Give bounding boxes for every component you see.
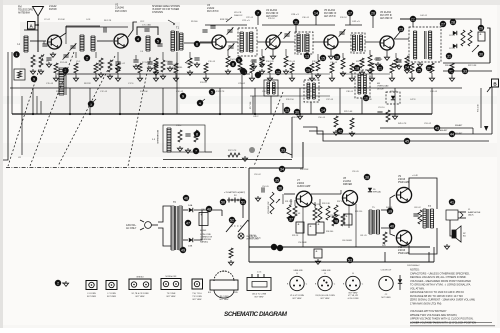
junction dot 15 <box>320 55 326 61</box>
conn T10 <box>192 279 203 301</box>
svg-text:NOTES:: NOTES: <box>410 268 420 272</box>
svg-text:FM CONV: FM CONV <box>115 9 127 13</box>
svg-text:D4A: D4A <box>188 204 193 207</box>
label V8 <box>343 177 352 186</box>
svg-text:R29 5.6K: R29 5.6K <box>344 111 353 113</box>
wire V2 collector up <box>128 22 133 37</box>
audio left vertical <box>248 168 250 262</box>
top wire seg D <box>205 24 247 26</box>
svg-text:52: 52 <box>230 218 234 222</box>
svg-text:50: 50 <box>221 200 225 204</box>
label V7 <box>297 179 311 188</box>
svg-text:CASE GND: CASE GND <box>293 269 303 272</box>
FM telescope antenna label <box>18 6 33 15</box>
volume control <box>268 192 280 214</box>
junction dot 61 <box>389 223 395 229</box>
svg-text:T10, T11 &: T10, T11 & <box>192 293 202 295</box>
AC plug <box>140 220 158 230</box>
svg-text:V7, V8, VR: V7, V8, VR <box>348 295 358 297</box>
electrolytic C62 <box>314 249 322 265</box>
junction dot 26 <box>426 65 432 71</box>
cap C47 <box>377 110 390 122</box>
svg-text:1: 1 <box>16 53 18 57</box>
junction dot 7 <box>255 10 261 16</box>
overload parts <box>386 92 400 104</box>
junction dot 25 <box>416 67 422 73</box>
svg-text:SCHEMATIC DIAGRAM: SCHEMATIC DIAGRAM <box>224 311 288 318</box>
svg-text:BOT VIEW: BOT VIEW <box>136 296 145 298</box>
svg-text:R6 2.2K: R6 2.2K <box>104 20 112 22</box>
junction dot 47 <box>183 195 189 201</box>
V4 emitter ground <box>270 49 275 59</box>
junction dot 59 <box>364 174 370 180</box>
junction dot 49 <box>180 247 186 253</box>
svg-text:R22 3.3K: R22 3.3K <box>468 65 477 67</box>
junction dot 6 <box>194 41 200 47</box>
svg-text:R19 1K: R19 1K <box>340 17 347 19</box>
svg-text:R36 560: R36 560 <box>326 231 333 233</box>
junction dot 64 <box>449 199 455 205</box>
svg-text:SPECIAL: SPECIAL <box>373 191 381 194</box>
junction dot 30 <box>478 51 484 57</box>
capacitor C1 <box>42 44 51 46</box>
svg-text:C49 2: C49 2 <box>253 116 259 118</box>
svg-text:2: 2 <box>57 281 59 285</box>
junction dot 56 <box>274 177 280 183</box>
svg-text:C53 .02: C53 .02 <box>424 123 432 125</box>
scan streak 1 <box>3 96 497 104</box>
svg-text:38: 38 <box>365 175 369 179</box>
junction dot 48 <box>185 220 191 226</box>
transistor V7 <box>296 191 312 207</box>
audio top wire <box>252 167 303 169</box>
det right wire <box>487 28 490 63</box>
ground V1 emitter <box>50 52 55 57</box>
shaded tuner area <box>20 22 180 114</box>
svg-text:27: 27 <box>441 22 445 26</box>
audio mid wires <box>311 194 341 206</box>
svg-text:L7 CONN: L7 CONN <box>107 293 116 295</box>
svg-text:11: 11 <box>294 20 298 24</box>
transistor V3 <box>212 35 226 49</box>
filler trim l <box>284 31 291 38</box>
resistor R8 <box>187 58 192 75</box>
C28 label <box>291 14 299 16</box>
svg-text:20: 20 <box>371 11 375 15</box>
junction dot 18 <box>354 65 360 71</box>
feed arrow right <box>484 126 488 131</box>
audio lower bus <box>249 247 434 262</box>
svg-text:400MF: 400MF <box>200 230 207 232</box>
transistor V10 <box>396 230 411 245</box>
gang dashed diagonal 3 <box>58 56 115 166</box>
svg-text:5: 5 <box>157 39 159 43</box>
AM IFT1 box <box>264 80 278 96</box>
resistor R25 <box>394 58 398 68</box>
junction dot 34 <box>88 101 94 107</box>
svg-text:WHERE TWO VOLTAGES ARE SHOWN,: WHERE TWO VOLTAGES ARE SHOWN, <box>410 313 457 317</box>
svg-text:8: 8 <box>232 62 234 66</box>
svg-text:DRIVER: DRIVER <box>343 183 352 186</box>
svg-text:49: 49 <box>181 248 185 252</box>
electrolytic C57 <box>308 224 316 235</box>
resistor R16 <box>259 56 264 74</box>
top wire seg A <box>24 29 38 31</box>
bus tick dots <box>32 113 301 115</box>
svg-text:C12 .05: C12 .05 <box>100 91 108 93</box>
svg-text:R9 560: R9 560 <box>191 21 198 23</box>
wire V3 base <box>200 41 212 43</box>
label V6 <box>380 11 393 20</box>
svg-text:BROADBAND: BROADBAND <box>156 130 159 144</box>
broadband coil <box>167 128 171 152</box>
junction dot 35 <box>180 93 186 99</box>
label V3 <box>207 4 219 13</box>
top wire seg E <box>262 24 335 26</box>
junction dot A1 <box>13 51 19 57</box>
rail mid <box>10 87 462 89</box>
svg-text:30: 30 <box>295 110 299 114</box>
svg-text:R18 470: R18 470 <box>312 61 320 63</box>
svg-text:C17 6: C17 6 <box>128 83 134 85</box>
bus verticals <box>33 88 432 114</box>
svg-text:L3 CONN: L3 CONN <box>87 293 96 295</box>
svg-text:4: 4 <box>199 101 201 105</box>
more labels low band <box>46 82 416 101</box>
feed vertical right <box>491 87 493 134</box>
title SCHEMATIC DIAGRAM <box>224 311 288 318</box>
det vertical right <box>489 28 491 63</box>
conn L7 <box>106 281 117 299</box>
junction dot 43 <box>337 128 343 134</box>
part number label <box>407 264 420 267</box>
svg-text:17MA MAX (NON LTD) FM): 17MA MAX (NON LTD) FM) <box>410 302 442 306</box>
junction dot 24 <box>404 64 410 70</box>
audio vertical wires <box>283 190 356 247</box>
diode D4B <box>188 238 193 248</box>
feed line top <box>380 128 473 134</box>
jack label <box>468 209 481 217</box>
battery label <box>224 191 245 194</box>
svg-text:BOT VIEW: BOT VIEW <box>321 298 330 300</box>
wire V2 base <box>97 40 113 42</box>
junction dot 52 <box>240 199 246 205</box>
label V4 <box>266 9 279 18</box>
svg-text:C51 10: C51 10 <box>378 107 385 109</box>
feed staircase A <box>303 127 492 134</box>
transistor V5 <box>324 35 338 49</box>
notes underline 2 <box>410 325 495 327</box>
filler trim k <box>227 27 234 34</box>
svg-text:≈ 0.4V: ≈ 0.4V <box>412 175 418 177</box>
svg-text:BOT VIEW: BOT VIEW <box>193 299 202 301</box>
C52 trim arrow <box>472 45 479 52</box>
svg-text:C2 .02: C2 .02 <box>44 19 51 21</box>
signal seg 7 <box>394 38 409 40</box>
R37 mid label <box>228 150 248 161</box>
transistor V6 <box>380 36 394 50</box>
svg-text:AM 1ST IF: AM 1ST IF <box>324 15 336 18</box>
junction dot 63 <box>277 245 283 251</box>
svg-text:6: 6 <box>196 42 198 46</box>
capacitor C2 <box>46 58 51 67</box>
trimmer C1B <box>63 52 70 59</box>
svg-text:5: 5 <box>211 90 213 94</box>
broadband parts <box>177 130 198 153</box>
bus verticals extra <box>37 96 41 114</box>
battery B1 <box>227 195 243 203</box>
transformer T1 <box>171 26 183 52</box>
svg-text:R23 10K: R23 10K <box>364 99 372 101</box>
svg-text:VOLUME 10K: VOLUME 10K <box>268 201 270 214</box>
svg-text:C53 .02: C53 .02 <box>254 174 261 176</box>
svg-text:48: 48 <box>207 207 211 211</box>
feed labels <box>455 124 463 135</box>
T2 winding 1 <box>414 31 417 59</box>
svg-text:BOT VIEW: BOT VIEW <box>87 296 96 298</box>
svg-text:C36 .05: C36 .05 <box>330 62 338 64</box>
plug wires <box>158 206 171 246</box>
svg-text:44: 44 <box>450 132 454 136</box>
scan streak 2 <box>3 143 497 157</box>
svg-text:BOT VIEW: BOT VIEW <box>349 293 358 295</box>
svg-text:9: 9 <box>33 77 35 81</box>
svg-text:C48 .05: C48 .05 <box>430 91 438 93</box>
electrolytic C60 <box>344 214 352 225</box>
svg-text:28: 28 <box>451 20 455 24</box>
junction dot 4 <box>135 36 141 42</box>
svg-text:C19 .05: C19 .05 <box>208 61 216 63</box>
filler res c <box>153 58 158 75</box>
pinout C2 <box>379 270 393 300</box>
ground det <box>417 62 422 67</box>
T1 drop wire <box>176 52 178 114</box>
svg-text:C54 .05: C54 .05 <box>262 186 269 188</box>
broadband wires <box>163 125 212 152</box>
top drop 17 <box>349 16 351 25</box>
svg-text:4M: 4M <box>377 83 380 85</box>
tone label <box>249 235 261 240</box>
svg-text:C30 .01: C30 .01 <box>302 17 310 19</box>
svg-text:C66 & TC CONN: C66 & TC CONN <box>252 294 267 296</box>
bias resistors row <box>53 63 454 81</box>
component value labels top band <box>34 15 438 93</box>
component value labels mid <box>253 107 448 132</box>
resistor R38 <box>334 205 345 226</box>
capacitor C23 <box>259 58 264 67</box>
AM IFT3 box <box>355 70 370 98</box>
pilot lamp <box>238 233 244 239</box>
svg-text:R14 3.9K: R14 3.9K <box>230 59 239 61</box>
broadband coil label <box>152 130 159 144</box>
signal seg 3 <box>280 41 295 43</box>
power transformer T6 <box>171 201 182 250</box>
junction dot 41 <box>320 107 326 113</box>
svg-text:1/2 D1: 1/2 D1 <box>449 48 456 50</box>
svg-text:EARPHONE: EARPHONE <box>468 211 481 214</box>
svg-text:35: 35 <box>275 178 279 182</box>
capacitor C9 <box>167 62 172 71</box>
V6 emitter ground <box>384 50 389 60</box>
svg-text:25: 25 <box>417 68 421 72</box>
diode D5 <box>368 188 381 194</box>
svg-text:PWR AMP: PWR AMP <box>398 252 410 255</box>
svg-text:R37 3.7K: R37 3.7K <box>228 150 237 152</box>
speaker SP <box>452 226 466 242</box>
box A callout <box>28 22 40 30</box>
V10 box stubs <box>385 252 429 262</box>
coil L5 <box>141 36 150 53</box>
junction dot 3 <box>62 67 68 73</box>
electrolytic C52 <box>478 32 485 41</box>
scan band top <box>0 0 500 5</box>
component value labels audio <box>262 186 421 244</box>
svg-text:BOT VIEW: BOT VIEW <box>293 298 302 300</box>
detector box T2 <box>409 27 441 62</box>
filler res e <box>238 60 242 70</box>
filler res j <box>404 56 409 73</box>
svg-text:13: 13 <box>285 108 289 112</box>
junction dot 54 <box>279 166 285 172</box>
filler cap f <box>251 60 256 69</box>
svg-text:R35 1K: R35 1K <box>292 235 299 237</box>
electrolytic C66 <box>199 209 208 232</box>
svg-text:D4B: D4B <box>188 246 193 248</box>
svg-text:9: 9 <box>182 94 184 98</box>
label V5 <box>324 9 337 18</box>
cord connector label <box>200 234 213 244</box>
svg-text:AM ANT: AM ANT <box>440 129 448 132</box>
svg-text:41: 41 <box>450 200 454 204</box>
junction dot 39 <box>197 100 203 106</box>
junction dot 62 <box>271 244 277 250</box>
loop C7 <box>137 25 158 36</box>
feed staircase B <box>309 131 489 141</box>
svg-text:33: 33 <box>281 148 285 152</box>
junction dot 23 <box>398 26 404 32</box>
svg-text:ZERO SIGNAL CURRENT - 10MA: ZERO SIGNAL CURRENT - 10MA MAX OVER VOL … <box>410 298 475 302</box>
svg-text:C59 .05: C59 .05 <box>352 171 359 173</box>
svg-text:16: 16 <box>335 55 339 59</box>
svg-text:R3 5.6K: R3 5.6K <box>60 62 68 64</box>
pwr amp wires <box>409 175 437 254</box>
signal seg 4 <box>313 41 324 43</box>
left small box <box>14 69 25 80</box>
electrolytic C58 <box>316 222 324 233</box>
svg-text:12: 12 <box>276 70 280 74</box>
conn L3 <box>86 281 97 299</box>
shaded area label <box>152 5 180 25</box>
svg-text:R11 10K: R11 10K <box>140 91 148 93</box>
junction dot 36 <box>194 131 200 137</box>
svg-text:AM 2ND IF: AM 2ND IF <box>380 17 393 20</box>
svg-text:14: 14 <box>314 11 318 15</box>
C13 label <box>176 125 182 127</box>
R13 label <box>220 19 229 21</box>
mid horizontal wire <box>163 159 292 161</box>
svg-text:R40 1K: R40 1K <box>386 207 393 209</box>
junction dot 44 <box>404 138 410 144</box>
svg-text:40: 40 <box>390 224 394 228</box>
svg-text:R17 10K: R17 10K <box>250 101 252 109</box>
svg-text:PWR AMP: PWR AMP <box>398 181 410 184</box>
diode D1 <box>449 31 457 37</box>
junction dot 60 <box>333 218 339 224</box>
svg-text:R13 250: R13 250 <box>220 19 229 21</box>
resistor R4 <box>98 58 103 77</box>
left wires <box>8 52 12 114</box>
junction dot 9 <box>236 57 242 63</box>
conn C66 TC <box>247 272 271 299</box>
junction dot 17 <box>347 10 353 16</box>
svg-text:R37 12K: R37 12K <box>337 201 345 203</box>
overload diode label <box>377 83 389 90</box>
svg-text:8: 8 <box>196 132 198 136</box>
AM IFT2 box <box>304 80 319 102</box>
R17 rot label <box>250 101 252 109</box>
svg-text:V3,V5,V6 & IN CONN: V3,V5,V6 & IN CONN <box>315 295 335 297</box>
resistor R41 <box>382 232 387 247</box>
svg-text:R7 1K: R7 1K <box>142 62 148 64</box>
svg-text:BOT VIEW: BOT VIEW <box>255 297 264 299</box>
wire T5 to V9 <box>381 195 395 236</box>
lamp label <box>246 236 260 241</box>
svg-text:34: 34 <box>280 167 284 171</box>
svg-text:2: 2 <box>86 56 88 60</box>
top wire seg F <box>345 24 362 26</box>
svg-text:R8 22K: R8 22K <box>84 83 91 85</box>
junction dot 58 <box>288 216 294 222</box>
svg-text:C42 ± 5: C42 ± 5 <box>352 21 360 23</box>
transistor V4 <box>266 35 280 49</box>
junction dot 28 <box>450 19 456 25</box>
R20 label <box>445 65 453 67</box>
svg-text:7: 7 <box>195 149 197 153</box>
svg-text:V1 & V2 CONN: V1 & V2 CONN <box>290 295 304 297</box>
label V10 <box>398 246 410 255</box>
capacitor C6 <box>104 27 106 32</box>
transistor V1 <box>48 35 62 49</box>
trimmer C3 <box>70 43 77 50</box>
coil L2 <box>80 35 84 51</box>
resistor R14 <box>225 56 230 74</box>
transistor V8 <box>343 191 358 206</box>
svg-text:& V10 CONN: & V10 CONN <box>348 298 359 300</box>
svg-text:ANTENNA: ANTENNA <box>18 12 30 15</box>
conn TR dome <box>208 271 238 301</box>
svg-text:46: 46 <box>184 196 188 200</box>
junction dot 37 <box>193 148 199 154</box>
junction dot 42 <box>363 95 369 101</box>
junction dot 50 <box>206 206 212 212</box>
junction dot 31 <box>446 53 452 59</box>
svg-text:L15 CK: L15 CK <box>234 12 242 14</box>
AGC stub 2 <box>200 99 205 103</box>
transistor V2 <box>114 34 128 48</box>
svg-text:TO GROUND WITH A VTVM, ⏚ (GRND: TO GROUND WITH A VTVM, ⏚ (GRND SIGNAL) F… <box>410 283 471 287</box>
junction dot 53 <box>229 217 235 223</box>
junction dot 65 <box>347 257 353 263</box>
svg-text:C61 .05: C61 .05 <box>360 235 367 237</box>
svg-text:31: 31 <box>447 54 451 58</box>
resistor R7 <box>160 60 165 79</box>
bus grounds <box>297 114 397 119</box>
IF transformer Z2 <box>295 32 313 54</box>
junction dot 32 <box>448 68 454 74</box>
wire vol to V7 <box>284 193 295 195</box>
AM antenna coil <box>59 68 64 95</box>
svg-text:R10 15K: R10 15K <box>186 63 194 65</box>
